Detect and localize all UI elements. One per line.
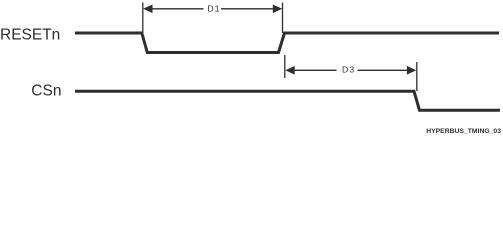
svg-text:D3: D3 [342, 65, 355, 75]
dimension D1 line left segment [152, 8, 204, 10]
svg-text:D1: D1 [207, 3, 220, 13]
extension line at RESETn falling edge (D1 left) [142, 3, 144, 34]
dimension D3 line right segment [358, 69, 409, 71]
wire CSn waveform: high, falling edge, low [75, 91, 500, 110]
svg-text:RESETn: RESETn [0, 26, 60, 43]
dimension D1 line right segment [221, 8, 274, 10]
dimension D3 right arrowhead [407, 66, 416, 75]
dimension D3 line left segment [294, 69, 337, 71]
dimension D1 left arrowhead [143, 5, 152, 14]
wire RESETn waveform: high, falling edge, low, rising edge, high [75, 33, 499, 53]
extension line at CSn falling edge (D3 right) [416, 62, 418, 91]
dimension D1 right arrowhead [273, 5, 282, 14]
extension line below RESETn rising edge (D3 left) [284, 55, 286, 78]
dimension D3 left arrowhead [285, 66, 294, 75]
svg-text:CSn: CSn [31, 82, 61, 99]
svg-text:HYPERBUS_TMING_03: HYPERBUS_TMING_03 [426, 128, 501, 135]
extension line at RESETn rising edge (D1 right) [282, 3, 284, 34]
